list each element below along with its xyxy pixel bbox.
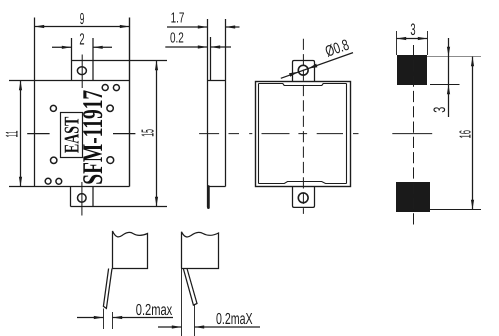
front panel hole bottom pair 2 [56, 178, 62, 184]
leader line for hole diameter [281, 53, 353, 79]
svg-text:3: 3 [430, 107, 449, 113]
svg-text:16: 16 [458, 130, 475, 139]
front bottom tab center line [81, 182, 83, 216]
dim 11 line with arrows [20, 81, 22, 187]
dim 3 top line with arrows [397, 38, 428, 40]
svg-text:1.7: 1.7 [171, 10, 185, 26]
back view horizontal center line dashes [199, 133, 358, 135]
dim 2 line arrows outside [52, 46, 72, 48]
front panel hole pair top right 2 [113, 85, 119, 91]
EAST label box [61, 113, 83, 158]
svg-text:2: 2 [79, 31, 84, 49]
front panel hole right lower [107, 157, 114, 164]
front view body bottom edge + 11-dim extension [9, 186, 130, 188]
side view body right edge + 1.7 extension [225, 19, 227, 187]
pad view top black square [397, 55, 427, 85]
svg-text:0.2: 0.2 [170, 30, 184, 46]
lead detail A dim 0.2max [77, 317, 104, 319]
side view plate right face top [210, 37, 212, 81]
front panel hole below pair [107, 105, 113, 111]
dim 15 line with arrows [156, 61, 158, 207]
lead detail A extension lines [104, 309, 113, 330]
lead detail B pin strip [183, 269, 197, 306]
front panel hole bottom pair 1 [45, 178, 51, 184]
lead detail B extension lines [182, 269, 195, 336]
lead detail A pin strip [103, 269, 112, 309]
svg-text:Ø0.8: Ø0.8 [323, 37, 351, 61]
lead detail B dim 0.2maX [158, 326, 182, 328]
back view inner wall top with slot jog [259, 84, 347, 86]
back view vertical center line dash-dot [302, 39, 304, 214]
dim 0.2 [165, 46, 207, 48]
front bottom mounting tab [71, 187, 168, 207]
dim 3 right bottom extension [430, 84, 460, 86]
front panel hole pair top right 1 [102, 85, 108, 91]
svg-text:3: 3 [410, 20, 415, 39]
front bottom tab hole [78, 194, 87, 203]
side view body bottom step [208, 186, 226, 188]
dim 16 line with arrows [472, 57, 474, 210]
dim 9 line with arrows [35, 26, 130, 28]
dim 16 bottom extension [430, 209, 481, 211]
front top tab center line [81, 55, 83, 89]
svg-text:0.2max: 0.2max [136, 302, 173, 319]
svg-text:0.2maX: 0.2maX [216, 311, 253, 328]
front center line tick left [27, 133, 49, 135]
dim 3 right line with outside arrows [448, 38, 450, 117]
back view top tab [293, 61, 315, 82]
side view bottom plate [207, 187, 210, 208]
front view body left edge + 9-dim extension [34, 18, 36, 187]
dim 3 right top extension [427, 56, 481, 58]
back view inner wall bottom with slot jog [259, 182, 347, 184]
svg-text:SFM-11917: SFM-11917 [78, 90, 109, 185]
front view body right edge + 9-dim extension [129, 18, 131, 187]
dim 3 top extensions [397, 31, 428, 55]
svg-text:15: 15 [138, 129, 158, 137]
lead detail B body with break line [182, 232, 219, 269]
front panel hole left upper [50, 105, 56, 111]
side view plate left face [207, 19, 209, 207]
dim 2 extension lines [72, 38, 94, 61]
side view body top step [208, 80, 226, 82]
dim 1.7 [167, 26, 208, 28]
front panel hole left lower [51, 157, 57, 163]
back view outer case [256, 82, 351, 187]
lead detail A body with break line [113, 231, 148, 269]
back view bottom tab [293, 187, 315, 208]
pad view vertical dash-dot center line [413, 45, 415, 228]
back view inner wall right [346, 84, 348, 184]
pad view bottom black square [396, 182, 430, 212]
pad view horizontal center tick [392, 133, 432, 135]
back view bottom tab hole [298, 193, 308, 203]
front view body top edge + 11-dim extension [9, 80, 130, 82]
front top tab hole [77, 67, 86, 75]
front center line tick right [113, 133, 135, 135]
svg-text:11: 11 [2, 131, 21, 138]
front top mounting tab [72, 61, 168, 81]
back view inner wall left [258, 84, 260, 184]
svg-text:9: 9 [80, 11, 85, 28]
back view top tab hole [298, 65, 308, 75]
